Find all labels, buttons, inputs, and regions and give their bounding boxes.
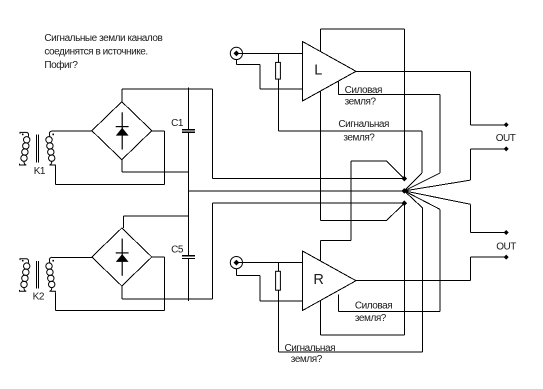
svg-text:земля?: земля? [291,354,323,365]
resistor R1 [276,62,281,79]
wire OUT1 gnd [471,148,507,150]
wire diagonal sig gnd ch2 to dot2 [404,191,422,208]
wire C5 bottom lead [188,258,190,301]
capacitor C5 [182,256,195,259]
wire mid vertical C1 to C5 [188,132,190,255]
wire R amp V+ riser [350,161,352,240]
wire amp R lower pin down [319,301,321,335]
svg-text:земля?: земля? [355,313,387,324]
wire OUT2 hot [471,256,507,258]
wire diagonal to dot1 [387,161,405,179]
wire signal ground ch2 up [421,208,423,353]
wire output up to OUT2 [470,257,472,281]
wire diagonal pwr gnd ch1 to dot2 [404,173,440,191]
input jack J2 [230,257,244,269]
wire power box L top [320,28,404,30]
wire amp L lower input [260,88,303,90]
svg-text:земля?: земля? [343,132,375,143]
wire power ground stub R [338,295,340,312]
wire box right down to dot1 [403,29,405,179]
wire jack1 sleeve down [235,60,237,65]
wire diagonal OUT2 gnd to dot2 [404,191,470,204]
wire amp L lower pin to diag [320,220,386,222]
wire bridge B2 right vertex down [163,257,165,311]
wire amp R output [356,280,471,282]
svg-text:земля?: земля? [345,97,377,108]
wire OUT2 gnd up [470,204,472,232]
svg-text:C5: C5 [171,244,184,255]
wire resistor R1 bottom lead down [277,79,279,131]
wire resistor R2 top lead [277,263,279,272]
wire diagonal OUT1 gnd to dot2 [404,180,470,191]
wire to dot1 [213,178,405,180]
svg-text:K1: K1 [34,166,46,177]
wire K1 secondary top to bridge B1 left vertex [52,130,92,132]
wire bridge B1 minus to C1 [122,171,189,173]
svg-text:Сигнальная: Сигнальная [338,119,389,130]
wire bridge B1 bottom vertex down [121,160,123,173]
wire to dot3 [213,202,405,204]
wire amp R V+ pin [319,240,321,261]
wire R amp V+ top [351,160,387,162]
note text block [44,33,162,71]
wire amp L V+ pin [319,29,321,52]
wire to dot2 [189,190,405,192]
svg-text:K2: K2 [33,292,45,303]
wire diagonal pwr gnd ch2 to dot2 [404,191,440,209]
wire R amp V+ corner [320,239,351,241]
wire OUT2 gnd [471,232,507,234]
wire bridge B2 right vertex stub [152,256,165,258]
wire bridge B1 top vertex up [121,89,123,102]
wire jack1 sleeve down 2 [259,65,261,90]
wire K2 bottom return [55,310,164,312]
wire bridge B1 right vertex down [163,131,165,185]
junction dot node +V [402,176,408,182]
wire signal ground ch2 [278,351,422,353]
wire jack2 sleeve down 2 [259,276,261,301]
terminal OUT2 hot [504,255,509,260]
wire B2 minus rail [122,298,213,300]
wire power ground ch1 [339,93,440,95]
wire jack2 to amp R input [236,262,302,264]
svg-text:L: L [314,62,322,78]
wire bridge B1 right vertex stub [152,130,165,132]
svg-text:Пофиг?: Пофиг? [44,59,78,71]
wire OUT1 hot [471,124,507,126]
wire dot3 wire down to ch2 minus rail [212,203,214,299]
terminal OUT2 gnd [504,230,509,235]
transformer K1 [20,131,56,167]
wire amp L output [356,70,471,72]
wire box R right up to dot3 [403,203,405,335]
wire amp R lower input [260,300,303,302]
svg-text:Силовая: Силовая [355,301,392,312]
svg-text:OUT: OUT [496,133,516,144]
terminal OUT1 gnd [504,146,509,151]
wire power ground stub L [338,81,340,94]
wire K2 secondary top to bridge B2 left vertex [52,256,92,258]
wire K1 bottom return [55,184,164,186]
wire resistor R1 top lead [277,53,279,62]
junction dot node signal ground star [402,188,408,194]
wire K2 bottom terminal down [54,293,56,311]
transformer K2 [20,257,56,293]
wire signal ground ch1 [278,130,422,132]
svg-text:Силовая: Силовая [345,85,382,96]
wire power ground ch1 down [439,94,441,173]
op-amp R triangle [303,251,357,311]
terminal OUT1 hot [504,122,509,127]
wire rail down to dot1 wire [212,89,214,178]
wire power ground ch2 up [439,209,441,311]
wire jack1 sleeve right [236,64,260,66]
svg-text:C1: C1 [171,118,184,129]
wire signal ground ch1 down [421,131,423,173]
input jack J1 [230,47,244,59]
capacitor C1 [182,130,195,133]
wire +V rail ch1 [122,88,213,90]
wire resistor R2 bottom lead down [277,290,279,352]
junction dot node power ground star [402,200,408,206]
wire OUT1 gnd down [470,149,472,180]
svg-text:Сигнальные земли каналов: Сигнальные земли каналов [44,33,162,44]
bridge rectifier B2 [92,228,152,286]
svg-text:R: R [313,272,323,288]
wire jack1 to amp L input [236,52,302,54]
wire amp L lower pin down [319,91,321,220]
wire B2 plus rail to C5 [123,215,188,217]
wire bridge B2 top vertex up [122,216,124,228]
wire power ground ch2 [339,310,440,312]
wire power box R bottom [320,334,404,336]
wire jack2 sleeve down [235,269,237,276]
resistor R2 [276,271,281,290]
wire K1 bottom terminal down [54,167,56,185]
svg-text:OUT: OUT [496,241,516,252]
wire C1 top lead [188,88,190,130]
wire bridge B2 bottom vertex down [121,286,123,299]
bridge rectifier B1 [92,102,152,160]
svg-text:соединятся в источнике.: соединятся в источнике. [44,47,147,58]
op-amp L triangle [303,42,357,102]
svg-text:Сигнальная: Сигнальная [285,343,336,354]
wire output down to OUT1 [470,71,472,125]
wire jack2 sleeve right [236,275,260,277]
wire diagonal sig gnd ch1 to dot2 [404,173,422,191]
wire diagonal to dot3 [387,203,405,220]
